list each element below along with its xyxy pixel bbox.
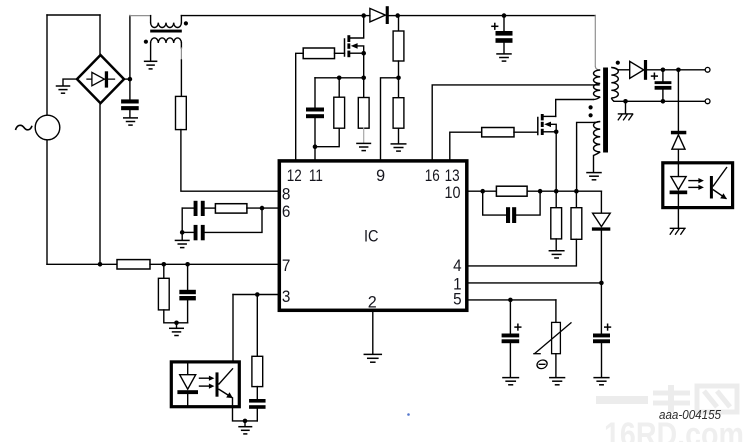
svg-text:IC: IC [364, 228, 379, 246]
opto LED right [670, 164, 688, 227]
wire pin 1 row [469, 281, 604, 286]
wire return rail bottom left [47, 263, 117, 265]
chassis ground at opto LED [670, 228, 686, 235]
primary/aux phase dots [589, 105, 593, 117]
wire secondary top to output diode [611, 67, 629, 69]
wire choke bottom-right down (part gray) [180, 43, 182, 96]
ground at choke [144, 61, 158, 69]
resistor pin10 filter (horizontal) [496, 186, 527, 196]
watermark domain text [604, 416, 744, 442]
wire bridge positive output [124, 16, 132, 100]
wire primary tap to pin 16 [432, 85, 599, 159]
pin 13 label [445, 167, 460, 185]
wire bridge negative to ground [63, 79, 77, 85]
capacitor pin6 series [182, 201, 215, 216]
pin 7 label [282, 257, 291, 275]
ground at input capacitor [123, 118, 138, 125]
bridge rectifier B1 [77, 55, 124, 103]
pin 16 label [425, 167, 440, 185]
diode output rectifier [630, 60, 647, 80]
op-amp/controller IC U1 [279, 161, 467, 310]
wire pin 2 down [372, 312, 374, 354]
capacitor pin7 [174, 264, 196, 325]
capacitor pin10 filter [483, 191, 540, 223]
wire pin 5 row [469, 298, 556, 303]
secondary phase dot [616, 61, 620, 65]
resistor Q2 gate (horizontal) [450, 128, 538, 160]
capacitor pin6 parallel [180, 208, 262, 240]
resistor upper HV (vertical) [393, 16, 404, 81]
ground at opto emitter [238, 421, 252, 434]
ground at lower HV resistor [391, 144, 407, 151]
svg-text:5: 5 [453, 291, 462, 309]
wire secondary bottom / output return rail [611, 98, 705, 104]
capacitor aux electrolytic right [593, 283, 611, 377]
ground at thermistor [549, 378, 565, 385]
wire Q1 source to node [361, 53, 366, 80]
optocoupler U2 (transistor side) box [171, 362, 239, 407]
resistor sense mid (vertical) [358, 78, 369, 128]
wire rectified to choke (gray jog) [130, 15, 151, 17]
wire pin 9 to divider node [381, 78, 399, 159]
svg-text:10: 10 [445, 184, 461, 202]
opto right phototransistor [710, 167, 727, 199]
resistor sense to ground (vertical) [551, 191, 562, 250]
pin 3 label [282, 288, 291, 306]
svg-text:2: 2 [368, 293, 377, 311]
svg-text:11: 11 [309, 167, 323, 185]
ground at aux cap [593, 378, 609, 385]
wire opto collector to pin 3 [232, 295, 234, 369]
transformer T1 primary winding [594, 70, 601, 97]
stray blue dot artifact [407, 413, 410, 416]
pin 11 label [309, 167, 323, 185]
wire divider resistor to pin 4 [469, 239, 577, 266]
opto U2 LED [177, 362, 198, 406]
pin 12 label [287, 167, 302, 185]
choke L1 bottom winding [151, 38, 182, 43]
figure number aaa-004155 [659, 407, 722, 422]
wire opto emitter to ground junction [233, 398, 258, 423]
pin 8 label [282, 185, 291, 203]
svg-text:4: 4 [453, 257, 462, 275]
ground at bridge negative [56, 86, 71, 93]
pin 9 label [376, 167, 385, 185]
resistor line sense (horizontal) [117, 260, 150, 269]
capacitor bulk input [121, 99, 139, 117]
choke phase dot top right [184, 21, 188, 25]
wire output positive rail [647, 68, 705, 73]
wire pin 7 row [150, 262, 278, 267]
diode boost top [364, 6, 398, 24]
watermark CJK (approximation) [596, 385, 737, 412]
zener diode feedback [671, 70, 686, 162]
svg-text:12: 12 [287, 167, 302, 185]
chassis ground at output return [618, 101, 634, 120]
resistor lower HV (vertical) [393, 78, 404, 144]
svg-text:8: 8 [282, 185, 291, 203]
pin 6 label [282, 203, 291, 221]
capacitor HV bulk electrolytic [491, 16, 512, 54]
diode aux rectifier (pointing down) [592, 191, 610, 283]
AC source V1 [16, 115, 60, 140]
svg-text:9: 9 [376, 167, 385, 185]
resistor Q1 gate (horizontal) [296, 48, 345, 159]
pin 2 label [368, 293, 377, 311]
ground at pin 2 [364, 354, 383, 362]
wire primary bottom to Q2 drain [556, 97, 601, 116]
wire aux bottom to ground [594, 152, 601, 172]
pin 5 label [453, 291, 462, 309]
wire pin 6 row [260, 206, 278, 211]
wire HV top rail [181, 13, 366, 18]
wire clamp node horizontal [315, 76, 364, 81]
pin 1 label [453, 276, 462, 294]
wire pin 10 row [469, 189, 602, 194]
transformer T1 secondary winding [611, 67, 618, 98]
transformer T1 aux winding [594, 122, 601, 153]
ground at mid resistor [356, 143, 371, 150]
wire bridge bottom to return rail [98, 103, 103, 267]
resistor startup (vertical) [176, 96, 187, 129]
wire gray lead to ground [363, 128, 365, 143]
svg-text:3: 3 [282, 288, 291, 306]
choke phase dot bottom left [144, 40, 148, 44]
wire startup resistor to pin 8 [181, 130, 278, 192]
capacitor pin3 [249, 399, 265, 421]
optocoupler U2 (LED side) box [663, 163, 733, 208]
ground at Vcc cap [502, 378, 519, 385]
capacitor Vcc electrolytic left [502, 300, 522, 377]
wire rail down to primary (gray) [595, 16, 600, 70]
pin 10 label [445, 184, 461, 202]
capacitor output electrolytic [651, 70, 672, 102]
svg-text:7: 7 [282, 257, 291, 275]
wire cap/res junction to pin 11 [314, 147, 316, 160]
opto U2 phototransistor [216, 368, 234, 398]
wire bridge top AC input [99, 15, 101, 55]
IC label [364, 228, 379, 246]
output terminal positive [705, 67, 710, 72]
capacitor clamp [306, 78, 324, 149]
wire choke bottom-left to ground [150, 43, 152, 61]
resistor clamp (vertical) [315, 78, 345, 147]
ground at pin6 caps [175, 232, 190, 247]
wire AC loop left vertical [46, 15, 48, 264]
transistor Q1 MOSFET [345, 16, 367, 58]
wire pin 3 row [233, 292, 278, 297]
transformer T1 core [603, 68, 608, 153]
wire top rail right of diode [395, 13, 595, 18]
choke L1 top winding [151, 16, 182, 28]
opto right arrows [688, 178, 704, 190]
thermistor theta symbol [536, 360, 548, 369]
ground at sense resistor [549, 251, 565, 258]
transistor Q2 MOSFET [538, 114, 559, 135]
resistor pin3 (vertical) [252, 295, 263, 400]
wire Q2 source down to sense row [555, 132, 557, 191]
pin 4 label [453, 257, 462, 275]
opto U2 arrows [199, 376, 215, 389]
resistor pin6 (horizontal) [215, 204, 262, 213]
ground at pin7 RC [169, 323, 184, 336]
svg-text:16: 16 [425, 167, 440, 185]
resistor pin7 (vertical) [158, 264, 187, 323]
choke core bar [150, 30, 182, 33]
thermistor NTC [533, 300, 571, 377]
resistor aux divider (vertical) [571, 191, 582, 239]
svg-text:6: 6 [282, 203, 291, 221]
svg-text:13: 13 [445, 167, 460, 185]
wire aux top to sense node [577, 122, 601, 192]
svg-text:aaa-004155: aaa-004155 [659, 407, 722, 422]
output terminal negative [705, 99, 710, 104]
ground at aux winding [586, 173, 602, 180]
ground at HV bulk cap [496, 54, 512, 61]
wire AC loop top [47, 14, 100, 16]
